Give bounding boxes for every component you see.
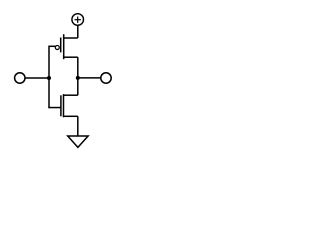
output wire [78, 77, 101, 79]
Q2 source lead [64, 115, 77, 117]
power supply V+ terminal [72, 14, 84, 26]
wire Q2 gate stub [49, 107, 60, 109]
Q2 channel [63, 94, 65, 117]
Q1 source lead [64, 37, 77, 39]
output port [101, 73, 111, 83]
transistor Q1 PMOS [55, 34, 77, 59]
Q2 drain lead [64, 94, 77, 96]
Q1 channel [63, 34, 65, 59]
Q1 gate plate [60, 38, 62, 53]
Q1 drain lead [64, 56, 77, 58]
input port [15, 73, 25, 83]
Q2 gate plate [60, 95, 62, 116]
wire Q2 source to ground [77, 116, 79, 136]
wire VDD stem [77, 25, 79, 38]
wire gate bus (left vertical) [48, 46, 50, 108]
wire output bus (right vertical) [77, 57, 79, 95]
ground [68, 136, 88, 147]
wire Q1 gate stub [49, 45, 55, 47]
input wire [25, 77, 49, 79]
transistor Q2 NMOS [61, 94, 77, 117]
junction node input [47, 76, 51, 80]
Q1 gate bubble [55, 46, 59, 50]
junction node output [76, 76, 80, 80]
